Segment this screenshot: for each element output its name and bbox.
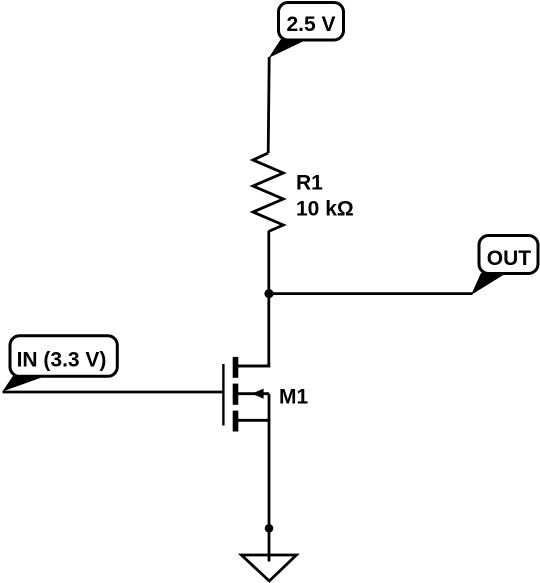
svg-text:M1: M1 — [279, 386, 308, 409]
bulk to source wire — [268, 394, 271, 421]
drain channel bar — [233, 357, 239, 378]
source connection wire — [238, 419, 270, 422]
wire IN to gate — [3, 391, 225, 394]
ground — [241, 555, 296, 581]
transistor M1 — [223, 357, 270, 432]
net label OUT — [471, 236, 538, 296]
svg-text:OUT: OUT — [487, 247, 532, 270]
wire source to ground — [268, 420, 271, 561]
wire 2.5V to R1 — [268, 57, 269, 153]
resistor R1 — [253, 153, 283, 232]
net label IN (3.3 V) — [3, 336, 118, 392]
svg-text:R1: R1 — [296, 171, 323, 194]
wire node to OUT — [269, 292, 473, 295]
source channel bar — [233, 411, 239, 432]
body channel bar — [233, 384, 239, 405]
bulk arrow — [252, 389, 264, 399]
wire R1 to node — [267, 231, 270, 294]
svg-text:10 kΩ: 10 kΩ — [296, 197, 354, 220]
gate line — [222, 364, 224, 426]
node junction dot — [264, 289, 273, 298]
net label 2.5 V — [269, 3, 344, 59]
drain connection wire — [238, 365, 270, 368]
svg-text:2.5 V: 2.5 V — [286, 13, 335, 36]
svg-text:IN (3.3 V): IN (3.3 V) — [17, 348, 107, 371]
wire node to drain — [238, 294, 269, 366]
junction dot at ground — [265, 524, 274, 533]
bulk wire — [238, 392, 269, 395]
